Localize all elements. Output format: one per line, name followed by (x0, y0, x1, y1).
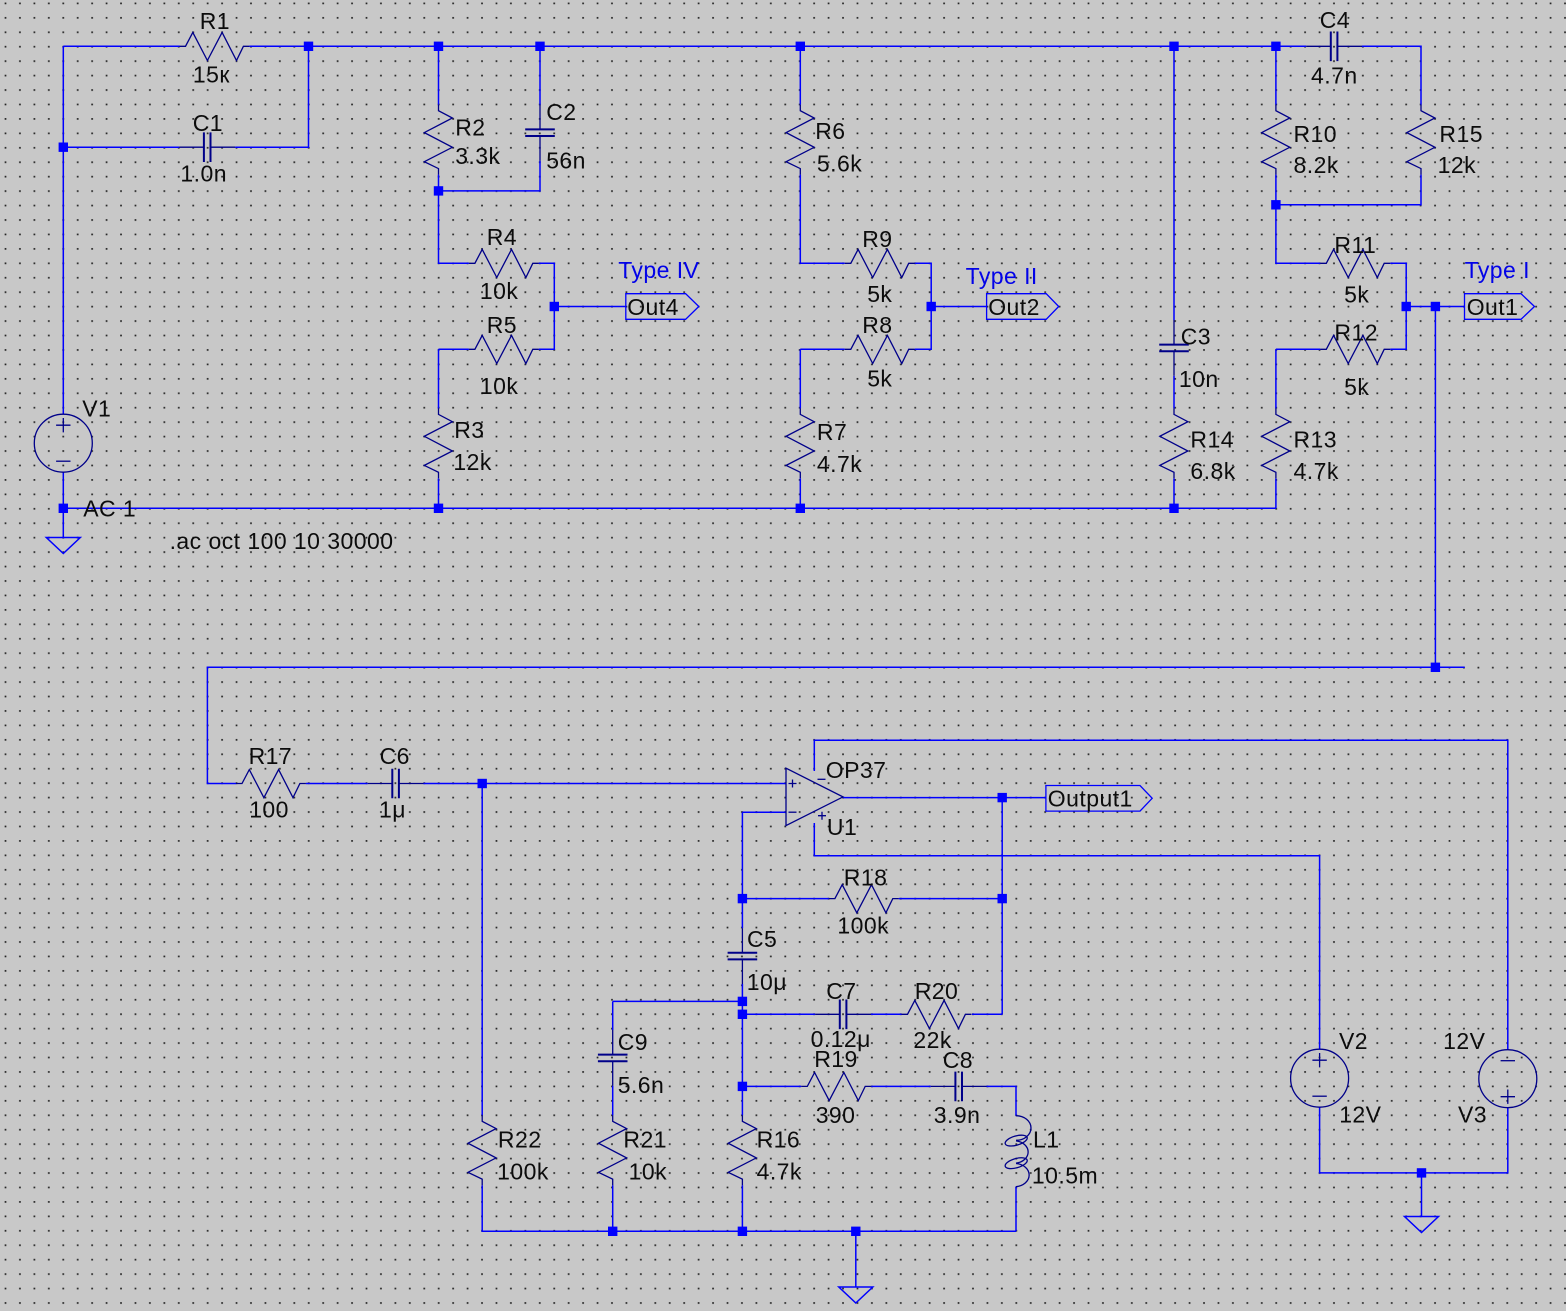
wire (871, 1013, 902, 1015)
wire (1173, 46, 1175, 320)
resistor R11 (1320, 232, 1390, 308)
resistor R17 (236, 743, 306, 823)
junction (1417, 1168, 1426, 1177)
wire (741, 899, 743, 929)
junction (59, 143, 68, 152)
svg-text:4.7k: 4.7k (1294, 458, 1339, 484)
capacitor C7 (811, 978, 871, 1052)
svg-text:Output1: Output1 (1048, 786, 1133, 812)
junction (1431, 663, 1440, 672)
wire (986, 1086, 1016, 1115)
resistor R5 (469, 312, 539, 399)
wire (742, 811, 786, 813)
svg-text:C7: C7 (826, 978, 856, 1004)
wire (1275, 349, 1277, 408)
svg-text:R13: R13 (1294, 427, 1338, 453)
wire (814, 740, 1508, 1049)
wire (1276, 175, 1320, 264)
svg-text:4.7n: 4.7n (1311, 63, 1358, 89)
wire (235, 46, 308, 147)
resistor R14 (1160, 408, 1236, 484)
resistor R12 (1320, 320, 1390, 401)
wire (871, 1085, 931, 1087)
junction (796, 42, 805, 51)
svg-text:1.0n: 1.0n (180, 161, 227, 187)
ground (839, 1287, 873, 1303)
svg-text:4.7k: 4.7k (757, 1159, 802, 1185)
capacitor C6 (368, 743, 424, 823)
junction (1271, 42, 1280, 51)
svg-text:L1: L1 (1033, 1127, 1059, 1153)
wire (1015, 1187, 1017, 1232)
voltage source V2 (1291, 1028, 1382, 1128)
svg-text:10k: 10k (629, 1159, 667, 1185)
capacitor C4 (1306, 7, 1362, 89)
svg-text:R19: R19 (814, 1046, 858, 1072)
wire (1173, 478, 1175, 508)
svg-text:10μ: 10μ (747, 969, 787, 995)
svg-text:V3: V3 (1458, 1102, 1487, 1128)
capacitor C2 (525, 99, 586, 173)
port flag Out2 (987, 294, 1059, 321)
wire (800, 175, 845, 264)
wire (915, 263, 932, 349)
wire (931, 306, 986, 308)
svg-text:5k: 5k (867, 366, 892, 392)
svg-text:3.9n: 3.9n (934, 1102, 981, 1128)
wire (814, 823, 1319, 1049)
svg-text:R5: R5 (487, 312, 517, 338)
svg-text:C6: C6 (380, 743, 410, 769)
junction (738, 1010, 747, 1019)
wire (799, 46, 801, 104)
svg-text:10k: 10k (480, 278, 518, 304)
resistor R19 (801, 1046, 871, 1128)
svg-text:V1: V1 (82, 396, 111, 422)
svg-text:C5: C5 (747, 926, 777, 952)
junction (550, 302, 559, 311)
svg-text:V2: V2 (1339, 1028, 1368, 1054)
svg-text:Out1: Out1 (1467, 294, 1519, 320)
inductor L1 (1004, 1116, 1098, 1189)
svg-text:12k: 12k (1438, 152, 1476, 178)
resistor R20 (902, 978, 972, 1053)
wire (855, 1231, 857, 1287)
wire (612, 1001, 614, 1030)
wire (438, 46, 440, 104)
wire (1173, 376, 1175, 409)
svg-text:.ac oct 100 10 30000: .ac oct 100 10 30000 (170, 528, 394, 554)
svg-text:C1: C1 (193, 110, 223, 136)
svg-text:4.7k: 4.7k (817, 451, 862, 477)
svg-text:Type IV: Type IV (618, 257, 699, 283)
svg-text:C4: C4 (1320, 7, 1350, 33)
wire (1421, 1173, 1423, 1217)
junction (434, 186, 443, 195)
wire (438, 478, 440, 508)
wire (1390, 263, 1406, 349)
wire (481, 784, 483, 1116)
junction (796, 504, 805, 513)
wire (482, 1185, 1016, 1231)
resistor R7 (786, 408, 862, 478)
svg-text:5.6n: 5.6n (618, 1072, 665, 1098)
junction (535, 42, 544, 51)
svg-text:C3: C3 (1181, 324, 1211, 350)
wire (439, 175, 469, 264)
svg-text:5k: 5k (1344, 282, 1369, 308)
svg-text:12V: 12V (1339, 1102, 1381, 1128)
svg-text:Type II: Type II (966, 263, 1038, 289)
junction (434, 504, 443, 513)
wire (1434, 307, 1436, 668)
wire (249, 45, 1306, 47)
voltage source V1 (34, 396, 136, 522)
resistor R3 (424, 408, 492, 478)
junction (434, 42, 443, 51)
wire (742, 1085, 801, 1087)
wire (62, 46, 64, 414)
wire (799, 478, 801, 508)
resistor R6 (786, 105, 862, 177)
svg-text:5k: 5k (1344, 374, 1369, 400)
junction (304, 42, 313, 51)
resistor R1 (180, 8, 250, 88)
wire (742, 898, 829, 900)
wire (439, 348, 469, 350)
junction (59, 504, 68, 513)
svg-text:R22: R22 (498, 1127, 542, 1153)
wire (424, 783, 787, 785)
svg-text:AC 1: AC 1 (83, 496, 136, 522)
svg-text:Out4: Out4 (627, 294, 679, 320)
svg-text:R2: R2 (455, 115, 485, 141)
wire (741, 1185, 743, 1231)
wire (539, 46, 541, 105)
svg-text:R21: R21 (623, 1127, 667, 1153)
svg-text:R7: R7 (817, 419, 847, 445)
svg-text:R3: R3 (454, 417, 484, 443)
wire (1406, 306, 1464, 308)
svg-text:R12: R12 (1334, 320, 1378, 346)
wire (63, 507, 1276, 509)
junction (1169, 42, 1178, 51)
resistor R9 (845, 226, 915, 307)
resistor R22 (468, 1115, 549, 1185)
junction (1169, 504, 1178, 513)
wire (741, 984, 743, 1086)
capacitor C9 (598, 1029, 664, 1098)
resistor R2 (424, 105, 500, 175)
svg-text:5k: 5k (867, 281, 892, 307)
svg-text:12V: 12V (1443, 1028, 1485, 1054)
svg-text:10n: 10n (1179, 366, 1219, 392)
wire (899, 898, 1002, 900)
wire (843, 797, 1046, 799)
resistor R16 (728, 1115, 802, 1185)
resistor R21 (599, 1115, 668, 1185)
op-amp U1 OP37 (786, 757, 886, 840)
svg-text:12k: 12k (453, 449, 491, 475)
resistor R18 (829, 865, 899, 939)
svg-text:100k: 100k (837, 913, 889, 939)
svg-text:R10: R10 (1294, 121, 1338, 147)
svg-text:R4: R4 (487, 224, 517, 250)
svg-text:5.6k: 5.6k (817, 151, 862, 177)
svg-text:U1: U1 (827, 814, 857, 840)
wire (613, 1000, 743, 1002)
svg-text:OP37: OP37 (826, 757, 887, 783)
junction (738, 1227, 747, 1236)
junction (738, 997, 747, 1006)
junction (738, 1082, 747, 1091)
wire (800, 348, 845, 350)
wire (1362, 46, 1421, 104)
svg-text:C2: C2 (546, 99, 576, 125)
junction (851, 1227, 860, 1236)
junction (738, 894, 747, 903)
wire (62, 472, 64, 537)
svg-text:R1: R1 (200, 8, 230, 34)
wire (799, 349, 801, 408)
wire (554, 306, 626, 308)
svg-text:R6: R6 (815, 118, 845, 144)
svg-text:8.2k: 8.2k (1294, 152, 1339, 178)
svg-text:R11: R11 (1334, 232, 1376, 258)
capacitor C5 (728, 926, 787, 995)
wire (612, 1086, 614, 1116)
svg-text:Type I: Type I (1465, 257, 1530, 283)
svg-text:10k: 10k (480, 373, 518, 399)
junction (998, 894, 1007, 903)
capacitor C3 (1159, 320, 1218, 392)
wire (1320, 1107, 1508, 1173)
wire (439, 161, 541, 191)
wire (742, 1013, 815, 1015)
svg-text:Out2: Out2 (988, 294, 1040, 320)
svg-text:100: 100 (249, 797, 289, 823)
ground (1405, 1217, 1439, 1233)
svg-text:C9: C9 (618, 1029, 648, 1055)
svg-text:R17: R17 (249, 743, 293, 769)
wire (438, 349, 440, 408)
svg-text:R18: R18 (844, 865, 888, 891)
svg-text:R9: R9 (862, 226, 892, 252)
resistor R8 (845, 312, 915, 392)
wire (972, 1013, 1002, 1015)
junction (998, 793, 1007, 802)
wire (63, 146, 179, 148)
svg-text:R14: R14 (1190, 427, 1234, 453)
junction (1402, 302, 1411, 311)
wire (1001, 798, 1003, 1015)
junction (1271, 200, 1280, 209)
port flag Out1 (1465, 294, 1535, 321)
wire (306, 783, 368, 785)
wire (1275, 46, 1277, 104)
resistor R15 (1407, 105, 1483, 179)
wire (1276, 348, 1320, 350)
wire (741, 1086, 743, 1115)
svg-text:R20: R20 (915, 978, 959, 1004)
svg-text:10.5m: 10.5m (1032, 1163, 1098, 1189)
svg-text:R15: R15 (1439, 121, 1483, 147)
port flag Output1 (1046, 786, 1152, 812)
svg-text:15к: 15к (193, 62, 230, 88)
resistor R10 (1262, 105, 1339, 179)
svg-text:100k: 100k (497, 1159, 549, 1185)
svg-text:R8: R8 (862, 312, 892, 338)
wire (539, 263, 555, 349)
wire (612, 1185, 614, 1231)
junction (927, 302, 936, 311)
wire (741, 812, 743, 898)
resistor R4 (469, 224, 539, 304)
svg-text:1μ: 1μ (379, 797, 406, 823)
resistor R13 (1262, 408, 1339, 484)
svg-text:3.3k: 3.3k (455, 143, 500, 169)
svg-text:56n: 56n (546, 148, 586, 174)
capacitor C8 (931, 1047, 987, 1128)
junction (478, 779, 487, 788)
wire (63, 45, 179, 47)
junction (1431, 302, 1440, 311)
wire (207, 667, 1464, 783)
wire (1276, 175, 1421, 205)
svg-text:6.8k: 6.8k (1190, 458, 1235, 484)
junction (608, 1227, 617, 1236)
voltage source V3 (1443, 1028, 1537, 1128)
wire (1275, 478, 1277, 508)
svg-text:C8: C8 (943, 1047, 973, 1073)
capacitor C1 (179, 110, 235, 187)
ground (46, 538, 80, 554)
svg-text:R16: R16 (757, 1127, 801, 1153)
port flag Out4 (626, 294, 699, 321)
svg-text:390: 390 (816, 1102, 856, 1128)
